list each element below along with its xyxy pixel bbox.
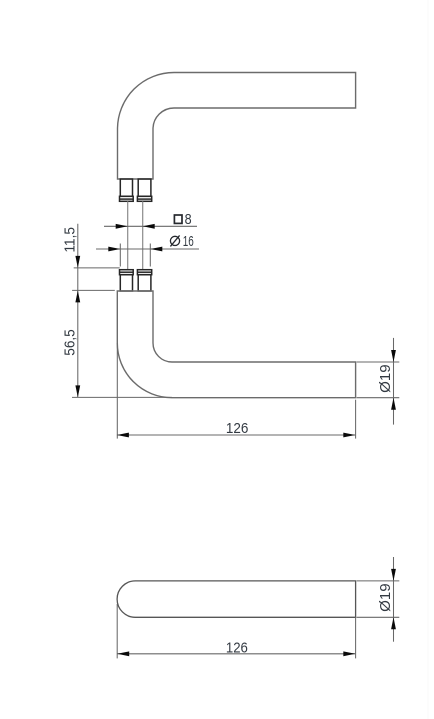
svg-text:11,5: 11,5	[61, 227, 78, 253]
dimension dia-19 (upper) extension lines	[357, 361, 400, 363]
lower neck stud left band	[120, 270, 134, 275]
dimension 11,5 extension line top	[74, 267, 120, 269]
dimension dia-19 (bottom) line	[393, 557, 395, 642]
lower neck stud right band	[137, 270, 151, 275]
lower neck stud left body	[120, 275, 132, 291]
lower neck stud right body	[138, 275, 151, 291]
svg-text:56,5: 56,5	[61, 329, 78, 356]
arrow up-pointing dia19 bottom bottom	[391, 617, 396, 629]
arrow left-pointing 126 upper	[117, 433, 129, 438]
dimension 126 (bottom) right extension	[355, 617, 357, 658]
dimension dia-16 extension ticks	[119, 244, 121, 267]
lower handle outline (side view, handle down)	[117, 291, 355, 398]
svg-text:126: 126	[226, 420, 249, 437]
dimension 126 (bottom) line	[117, 653, 355, 655]
arrow down-pointing above ext3	[75, 385, 80, 397]
dimension 11,5 extension line bottom	[72, 289, 115, 291]
arrow left-pointing at dia16 right	[150, 247, 162, 252]
vertical dimension line 11,5 + 56,5	[77, 224, 79, 398]
dimension 56,5 bottom extension line	[72, 396, 172, 398]
arrow right-pointing 126 bottom	[343, 651, 355, 656]
arrow left-pointing 126 bottom	[117, 651, 129, 656]
faint frame edge right	[427, 0, 429, 719]
dimension dia-19 (bottom) extension lines	[357, 580, 400, 582]
svg-text:16: 16	[183, 233, 194, 250]
arrow left-pointing at right spindle	[143, 224, 155, 229]
arrow right-pointing at dia16 left	[108, 247, 120, 252]
arrow down-pointing dia19 bottom top	[391, 569, 396, 581]
dimension 126 (bottom) left extension	[116, 604, 118, 658]
upper neck stud left body	[120, 179, 132, 196]
arrow right-pointing at left spindle	[116, 224, 128, 229]
dimension 126 (upper) right extension	[355, 400, 357, 439]
arrow down-pointing above ext1	[75, 256, 80, 268]
label square-8	[174, 211, 191, 228]
arrow up-pointing dia19 upper bottom	[391, 398, 396, 410]
bottom view handle bar (stadium)	[117, 581, 356, 617]
upper handle outline (side view, handle up)	[118, 73, 356, 180]
spindle line left	[127, 201, 129, 269]
dimension dia-19 (upper) line	[393, 338, 395, 425]
spindle line right	[142, 201, 144, 269]
upper neck stud left band	[120, 196, 134, 201]
arrow up-pointing below ext2	[75, 290, 80, 302]
svg-text:126: 126	[226, 640, 248, 657]
upper neck stud right body	[138, 179, 151, 196]
label dia-16	[170, 233, 193, 250]
arrow down-pointing dia19 upper top	[391, 350, 396, 362]
svg-text:Ø19: Ø19	[377, 583, 394, 612]
dimension 126 (upper) left extension	[116, 343, 118, 439]
upper neck stud right band	[137, 196, 151, 201]
svg-text:8: 8	[185, 211, 192, 228]
dimension square-8 line	[104, 225, 197, 227]
dimension 126 (upper) line	[117, 434, 355, 436]
svg-text:Ø19: Ø19	[377, 364, 394, 393]
arrow right-pointing 126 upper	[343, 433, 355, 438]
dimension dia-16 line	[96, 248, 199, 250]
